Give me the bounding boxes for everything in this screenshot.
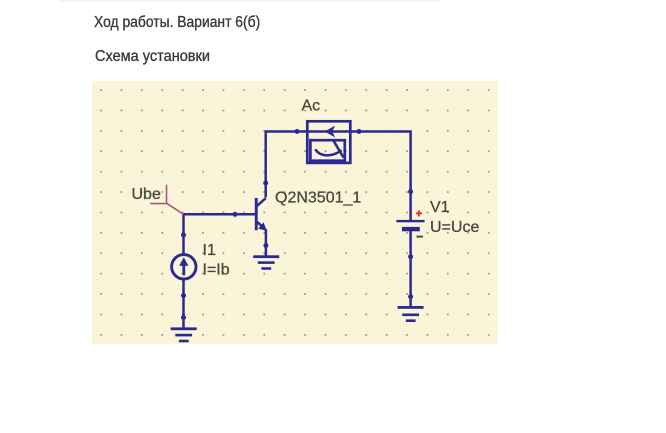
junction dot transistor base pin <box>233 212 238 217</box>
wire: transistor emitter down to ground <box>265 229 268 257</box>
junction dot V1 top pin <box>408 189 413 194</box>
junction dot I1 ground pin <box>181 315 186 320</box>
wire: ammeter right to V1 top <box>350 132 411 221</box>
label Q2N3501_1 <box>275 190 361 207</box>
svg-text:U=Uce: U=Uce <box>430 219 479 236</box>
junction dot I1 bottom pin <box>181 293 186 298</box>
ground under battery V1 <box>398 306 424 322</box>
ammeter Ac (box with left-pointing arrow and meter face) <box>307 121 350 163</box>
junction dot transistor collector pin <box>263 181 268 186</box>
value label U=Uce <box>430 219 479 236</box>
junction dot ammeter right pin <box>357 129 362 134</box>
junction dot V1 bottom pin <box>408 254 413 259</box>
wire: transistor collector up and left to ammeter <box>266 132 308 198</box>
junction dot V1 ground pin <box>408 294 413 299</box>
node label Ube attachment wire (pink) <box>150 185 183 215</box>
wire: I1 bottom to ground <box>182 279 185 329</box>
label V1 <box>430 199 450 216</box>
junction dot I1 top pin <box>181 233 186 238</box>
current source I1 circle with up arrow <box>172 255 196 279</box>
battery V1 plus sign (red) <box>416 210 422 216</box>
svg-text:Ac: Ac <box>302 98 321 115</box>
battery V1 plates <box>396 220 424 231</box>
svg-text:Q2N3501_1: Q2N3501_1 <box>275 190 361 207</box>
svg-text:I1: I1 <box>203 242 216 259</box>
battery V1 minus sign <box>417 236 424 238</box>
value label I=Ib <box>203 261 230 278</box>
label I1 <box>203 242 216 259</box>
wire: Ube node down to current source I1 <box>182 214 185 255</box>
junction dot ammeter left pin <box>295 129 300 134</box>
wire: V1 bottom to ground <box>409 231 412 308</box>
junction dot transistor emitter pin <box>263 243 268 248</box>
ground under transistor emitter <box>253 255 279 269</box>
wire: base wire from Ube node to transistor base <box>184 213 257 216</box>
svg-text:I=Ib: I=Ib <box>203 261 230 278</box>
ground under current source I1 <box>171 327 197 342</box>
label Ac <box>302 98 321 115</box>
svg-text:V1: V1 <box>430 199 450 216</box>
node label Ube text <box>132 186 161 203</box>
svg-text:Ube: Ube <box>132 186 161 203</box>
transistor Q2N3501_1 (NPN) <box>255 198 267 231</box>
